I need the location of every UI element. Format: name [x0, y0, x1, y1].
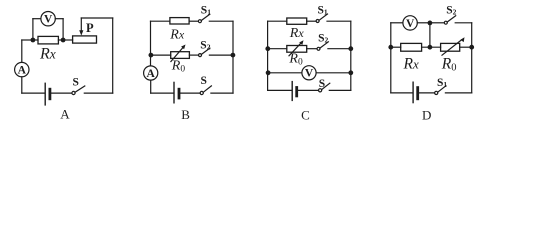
wire: Rx to right node [35, 39, 38, 41]
wire: C volt branch right [316, 72, 350, 74]
wire: D top to switch [430, 22, 444, 24]
resistor Rx (C) [287, 18, 307, 24]
wire: D battery to switch [419, 92, 435, 94]
ammeter A1 [15, 62, 29, 76]
wire: C mid branch right [328, 48, 351, 50]
wire: C switch to corner [329, 89, 351, 91]
node D top-mid [428, 21, 433, 26]
wire: A left vertical top segment [21, 40, 23, 62]
wire: D top branch left [391, 22, 403, 24]
wire: A main branch left [22, 39, 33, 41]
ammeter A2 [144, 66, 158, 80]
rheostat R0 (D) arrow [442, 37, 465, 55]
node left of Rx [31, 38, 36, 43]
resistor Rx (B) [170, 18, 189, 24]
wire: C top branch right [327, 20, 351, 22]
node B mid-right [231, 53, 236, 58]
wire: D right vertical [471, 23, 473, 93]
wire: C volt branch left [268, 72, 302, 74]
svg-text:S1: S1 [201, 5, 211, 17]
node D mid-left [388, 45, 393, 50]
switch S2 (B) [199, 48, 210, 57]
battery BT1 [45, 83, 50, 105]
svg-text:Rx: Rx [289, 26, 305, 41]
wire: D left vertical [390, 23, 392, 93]
wire: C bottom left to battery [268, 89, 292, 91]
wire: B left vertical [150, 21, 152, 66]
rheostat R0 (B) arrow [171, 45, 186, 62]
wire: D switch to corner [445, 92, 471, 94]
svg-text:S: S [201, 75, 207, 87]
svg-text:P: P [86, 21, 94, 35]
wire: V loop left horizontal [33, 18, 41, 20]
voltmeter V (D) [403, 16, 417, 30]
wire: C right vertical [350, 21, 352, 90]
wire: A top right horizontal [81, 17, 112, 19]
wire: C top branch left [268, 20, 287, 22]
wire: B bottom left to battery [151, 92, 174, 94]
switch S (C) [319, 83, 330, 92]
wire: B top branch right [209, 20, 233, 22]
svg-text:A: A [60, 107, 70, 122]
wire: B left vertical lower [150, 80, 152, 93]
wire: A bottom left to battery [22, 92, 45, 94]
resistor Rx (D) [401, 43, 422, 51]
svg-text:Rx: Rx [403, 55, 419, 72]
svg-text:V: V [305, 68, 314, 80]
rheostat P body [73, 36, 97, 43]
voltmeter V (C) [302, 66, 316, 80]
wire: B mid branch mid [189, 54, 198, 56]
battery BT4 [413, 82, 418, 102]
switch S [72, 86, 85, 95]
node C volt-left [266, 70, 271, 75]
wire: B top branch mid [189, 20, 198, 22]
wire: C mid branch mid [307, 48, 317, 50]
svg-text:A: A [147, 68, 156, 80]
svg-text:V: V [44, 14, 53, 26]
wire: B switch to corner [211, 92, 233, 94]
voltmeter V1 [41, 12, 55, 26]
wire: C mid branch left [268, 48, 287, 50]
wire: node to rheostat P [63, 39, 73, 41]
svg-text:R0: R0 [441, 55, 457, 73]
battery BT2 [174, 82, 179, 102]
wire: B right vertical [232, 21, 234, 93]
resistor Rx (A) [38, 36, 58, 44]
switch S2 (D) [444, 16, 455, 25]
wire: D mid branch mid [422, 46, 441, 48]
wire: A right vertical [112, 18, 114, 93]
svg-text:S: S [319, 78, 325, 90]
switch S2 (C) [317, 42, 328, 51]
node C volt-right [348, 70, 353, 75]
wire: C left vertical [267, 21, 269, 90]
wire: A switch to bottom right corner [84, 92, 112, 94]
wire: V loop left vertical [32, 19, 34, 40]
rheostat R0 (C) body [287, 46, 307, 53]
node D mid-right [469, 45, 474, 50]
svg-text:R0: R0 [171, 59, 186, 75]
node C mid-left [265, 46, 270, 51]
wire: A battery to switch [51, 92, 72, 94]
wire: V loop right vertical [62, 19, 64, 40]
wire: D top branch mid [417, 22, 430, 24]
svg-text:S1: S1 [437, 77, 447, 89]
svg-text:B: B [181, 107, 190, 122]
wire: B battery to switch [180, 92, 200, 94]
wire: C top branch mid [307, 20, 316, 22]
wire: D bottom left to battery [391, 92, 413, 94]
svg-text:S2: S2 [446, 5, 456, 17]
wire: A left vertical bottom segment [21, 77, 23, 93]
rheostat P wiper arrow [79, 18, 83, 36]
svg-text:S2: S2 [200, 39, 210, 51]
node right of Rx [61, 38, 66, 43]
wire: C battery to switch [298, 89, 318, 91]
svg-text:R0: R0 [288, 52, 303, 68]
svg-text:D: D [422, 108, 431, 123]
node B mid-left [149, 53, 154, 58]
rheostat R0 (D) body [441, 43, 460, 51]
switch S1 (C) [316, 14, 327, 23]
svg-text:C: C [301, 108, 310, 123]
wire: B mid branch right [209, 54, 232, 56]
svg-text:Rx: Rx [169, 27, 185, 42]
wire: V loop right horizontal [55, 18, 63, 20]
switch S1 (B) [198, 14, 209, 23]
svg-text:S1: S1 [318, 4, 328, 16]
rheostat R0 (C) arrow [289, 40, 304, 56]
wire: D top branch right [455, 22, 472, 24]
svg-text:V: V [406, 18, 415, 30]
wire: D mid branch left [391, 46, 401, 48]
node C mid-right [348, 46, 353, 51]
wire: B top branch left [151, 20, 170, 22]
node D mid-mid [428, 45, 433, 50]
svg-text:Rx: Rx [39, 45, 56, 62]
switch S1 (D) [435, 86, 446, 95]
svg-text:A: A [18, 65, 27, 77]
switch S (B) [200, 86, 211, 95]
wire: B mid branch left [151, 54, 171, 56]
svg-text:S: S [73, 77, 79, 89]
battery BT3 [292, 82, 297, 101]
rheostat R0 (B) body [171, 52, 190, 59]
wire: D mid branch right [460, 46, 472, 48]
wire: D middle vertical [429, 23, 431, 47]
svg-text:S2: S2 [318, 33, 328, 45]
